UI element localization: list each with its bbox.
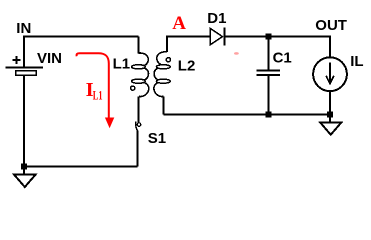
node OUT label (315, 17, 347, 34)
capacitor C1 top lead (267, 37, 269, 70)
inductor L1 bottom lead to switch (138, 96, 140, 123)
label L2 (178, 57, 196, 74)
svg-text:S1: S1 (148, 130, 166, 147)
wire: L2 to diode anode (166, 36, 210, 38)
label IL (350, 53, 363, 70)
label IL1 (red, serif) (86, 79, 103, 103)
label D1 (207, 10, 226, 27)
wire: VIN top lead (23, 36, 25, 68)
inductor L1 top lead (138, 37, 140, 54)
label C1 (273, 49, 292, 66)
svg-text:OUT: OUT (315, 17, 347, 34)
inductor L2 bottom lead (163, 96, 165, 114)
wire: VIN bottom lead down to ground junction (23, 75, 25, 174)
label S1 (148, 130, 166, 147)
svg-text:D1: D1 (207, 10, 226, 27)
svg-text:A: A (172, 13, 186, 34)
svg-text:L1: L1 (113, 56, 131, 73)
capacitor C1 (257, 71, 281, 75)
svg-text:VIN: VIN (37, 50, 62, 67)
label VIN (37, 50, 62, 67)
node A label (red) (172, 13, 186, 34)
wire: bottom-left rail from VIN to S1 (24, 166, 138, 168)
capacitor C1 bottom lead (267, 76, 269, 115)
inductor L2 (secondary winding, loops bulge left) (154, 52, 170, 97)
red speck artifact right of D1 (234, 52, 239, 55)
inductor L2 top lead (166, 37, 168, 53)
svg-text:IL: IL (350, 53, 363, 70)
ground (right, below IL) (320, 123, 341, 135)
source VIN (DC source symbol) (6, 56, 43, 75)
wire: S1 bottom lead (137, 131, 139, 167)
junction at C1 top (265, 34, 271, 40)
current source IL (313, 57, 347, 91)
wire: top-left rail from VIN to L1 (24, 36, 139, 38)
svg-text:IN: IN (16, 20, 31, 37)
junction at VIN ground node (21, 164, 27, 170)
diode D1 (210, 28, 225, 46)
wire: stub to right ground (329, 117, 331, 123)
current arrow IL1 (red) (77, 53, 115, 128)
svg-text:L1: L1 (93, 88, 103, 103)
wire: diode cathode to OUT corner (225, 36, 330, 38)
junction at C1 bottom (265, 112, 271, 118)
junction at IL bottom (327, 112, 333, 118)
inductor L1 (primary winding, loops bulge right) (132, 53, 149, 97)
label L1 (113, 56, 131, 73)
wire: IL bottom lead (329, 91, 331, 114)
node IN label (16, 20, 31, 37)
phase dot of L1 (131, 86, 135, 90)
svg-text:L2: L2 (178, 57, 196, 74)
switch S1 (136, 122, 141, 131)
wire: bottom-right rail from L2 to IL ground (164, 114, 332, 116)
wire: OUT corner down to IL (329, 36, 331, 58)
phase dot of L2 (166, 58, 170, 62)
svg-text:C1: C1 (273, 49, 292, 66)
ground (left, below VIN) (14, 174, 36, 187)
